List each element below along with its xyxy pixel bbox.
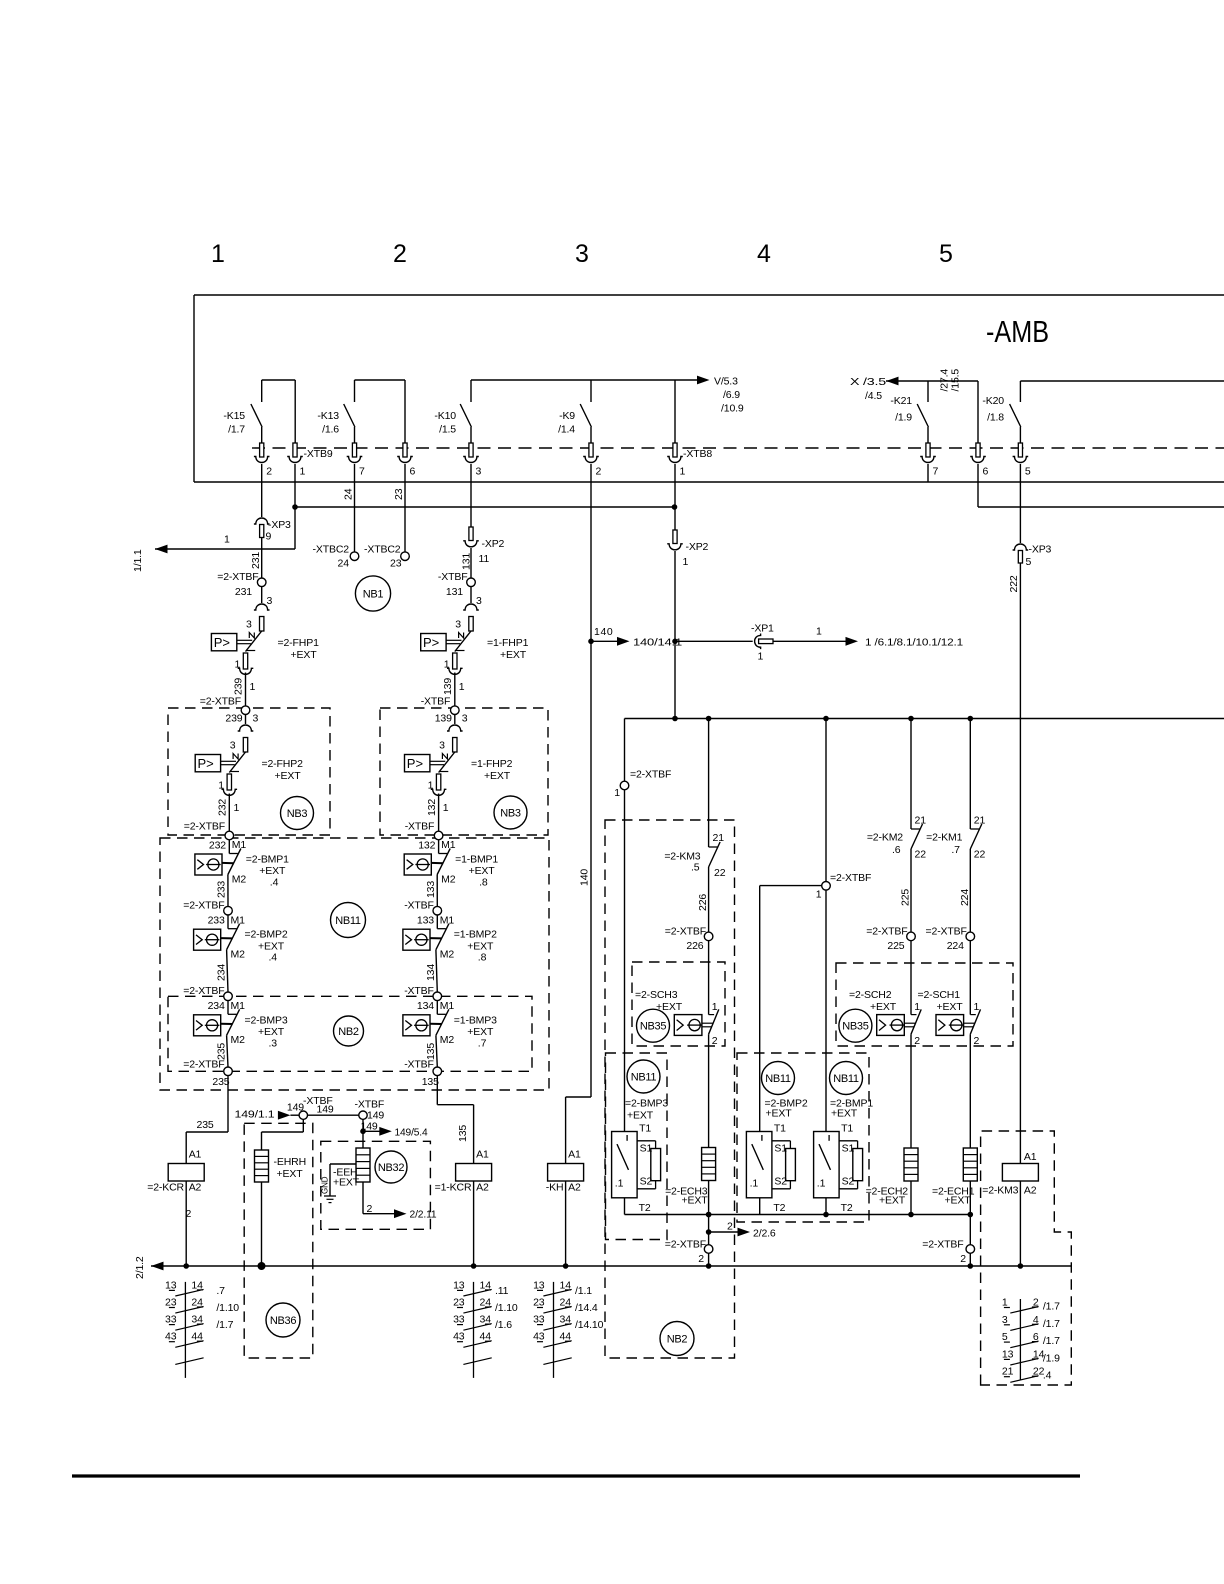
- svg-text:135: 135: [422, 1076, 439, 1088]
- svg-text:225: 225: [900, 889, 912, 906]
- svg-text:P>: P>: [423, 635, 439, 650]
- svg-text:135: 135: [457, 1125, 469, 1142]
- svg-text:43: 43: [453, 1331, 465, 1343]
- svg-text:=2-BMP3: =2-BMP3: [245, 1014, 288, 1026]
- svg-text:-XTB8: -XTB8: [683, 448, 712, 460]
- svg-text:+EXT: +EXT: [277, 1168, 304, 1180]
- svg-text:13: 13: [533, 1279, 545, 1291]
- svg-text:.11: .11: [495, 1285, 509, 1297]
- svg-text:22: 22: [974, 849, 986, 861]
- svg-text:1: 1: [974, 1001, 980, 1013]
- svg-text:GND: GND: [321, 1176, 330, 1194]
- svg-text:.7: .7: [951, 844, 960, 856]
- svg-text:7: 7: [359, 466, 365, 478]
- svg-text:149: 149: [317, 1104, 334, 1116]
- svg-text:149/5.4: 149/5.4: [395, 1126, 428, 1138]
- svg-text:33: 33: [533, 1314, 545, 1326]
- svg-text:233: 233: [208, 915, 225, 927]
- svg-text:3: 3: [1002, 1314, 1008, 1326]
- svg-text:239: 239: [233, 678, 245, 695]
- svg-text:=2-FHP2: =2-FHP2: [262, 758, 304, 770]
- svg-text:+EXT: +EXT: [333, 1177, 360, 1189]
- svg-text:-AMB: -AMB: [986, 314, 1049, 349]
- svg-text:A1: A1: [476, 1149, 489, 1161]
- svg-text:=1-BMP2: =1-BMP2: [454, 929, 497, 941]
- svg-text:NB11: NB11: [833, 1073, 859, 1085]
- svg-text:22: 22: [714, 867, 726, 879]
- svg-text:133: 133: [417, 915, 434, 927]
- svg-text:21: 21: [915, 815, 927, 827]
- svg-text:135: 135: [425, 1043, 437, 1060]
- svg-text:3: 3: [439, 740, 445, 752]
- svg-text:/1.7: /1.7: [1043, 1301, 1060, 1313]
- svg-text:-XTBC2: -XTBC2: [364, 544, 401, 556]
- svg-text:-K20: -K20: [982, 395, 1004, 407]
- svg-text:132: 132: [426, 799, 438, 816]
- svg-text:-K13: -K13: [317, 410, 339, 422]
- svg-text:-XTBF: -XTBF: [438, 571, 468, 583]
- svg-text:-EHRH: -EHRH: [274, 1156, 307, 1168]
- svg-text:-XTBF: -XTBF: [404, 985, 434, 997]
- svg-text:A2: A2: [568, 1182, 581, 1194]
- svg-text:M2: M2: [441, 873, 456, 885]
- svg-text:23: 23: [393, 488, 405, 500]
- svg-text:1/1.1: 1/1.1: [132, 549, 144, 572]
- svg-text:=2-XTBF: =2-XTBF: [183, 985, 224, 997]
- svg-text:-XTBF: -XTBF: [405, 821, 435, 833]
- svg-text:/1.7: /1.7: [1043, 1335, 1060, 1347]
- svg-text:23: 23: [453, 1297, 465, 1309]
- svg-text:226: 226: [686, 940, 703, 952]
- svg-text:24: 24: [338, 558, 350, 570]
- svg-text:A2: A2: [476, 1182, 489, 1194]
- svg-text:=2-XTBF: =2-XTBF: [200, 696, 241, 708]
- svg-text:S2: S2: [774, 1175, 787, 1187]
- svg-text:NB3: NB3: [500, 807, 521, 819]
- svg-text:2/1.2: 2/1.2: [134, 1256, 146, 1279]
- svg-text:+EXT: +EXT: [879, 1195, 906, 1207]
- svg-text:222: 222: [1008, 575, 1020, 592]
- svg-text:M2: M2: [231, 1034, 246, 1046]
- svg-text:1: 1: [758, 651, 764, 663]
- svg-text:NB36: NB36: [270, 1315, 296, 1327]
- svg-text:3: 3: [455, 619, 461, 631]
- svg-text:/14.4: /14.4: [575, 1302, 598, 1314]
- svg-text:+EXT: +EXT: [467, 940, 494, 952]
- svg-text:/1.7: /1.7: [216, 1319, 233, 1331]
- svg-text:22: 22: [915, 849, 927, 861]
- svg-text:+EXT: +EXT: [291, 649, 318, 661]
- svg-text:231: 231: [250, 552, 262, 569]
- svg-text:P>: P>: [214, 635, 230, 650]
- svg-text:NB35: NB35: [842, 1021, 868, 1033]
- svg-text:5: 5: [939, 240, 953, 268]
- svg-text:11: 11: [479, 553, 490, 565]
- svg-text:.1: .1: [615, 1178, 624, 1190]
- svg-text:+EXT: +EXT: [937, 1001, 964, 1013]
- svg-text:T2: T2: [841, 1202, 853, 1214]
- svg-text:.8: .8: [478, 952, 487, 964]
- svg-text:=1-FHP2: =1-FHP2: [471, 758, 513, 770]
- svg-text:T1: T1: [774, 1123, 786, 1135]
- svg-text:-XTBF: -XTBF: [404, 1059, 434, 1071]
- svg-text:=2-SCH3: =2-SCH3: [635, 989, 678, 1001]
- svg-text:+EXT: +EXT: [831, 1108, 858, 1120]
- svg-text:3: 3: [246, 619, 252, 631]
- svg-text:226: 226: [697, 894, 709, 911]
- svg-text:21: 21: [713, 832, 725, 844]
- svg-text:1: 1: [680, 466, 686, 478]
- svg-text:-XP1: -XP1: [751, 623, 774, 635]
- svg-text:.7: .7: [478, 1037, 487, 1049]
- svg-text:=2-XTBF: =2-XTBF: [183, 1059, 224, 1071]
- svg-text:.4: .4: [1043, 1370, 1052, 1382]
- svg-text:A1: A1: [568, 1149, 581, 1161]
- svg-text:9: 9: [266, 531, 272, 543]
- svg-text:=2-XTBF: =2-XTBF: [217, 571, 258, 583]
- svg-text:S1: S1: [774, 1143, 787, 1155]
- svg-text:239: 239: [225, 713, 242, 725]
- svg-text:149: 149: [287, 1102, 304, 1114]
- svg-text:1: 1: [816, 626, 822, 638]
- svg-text:P>: P>: [198, 756, 214, 771]
- svg-text:-XTBF: -XTBF: [404, 900, 434, 912]
- svg-text:S2: S2: [842, 1175, 855, 1187]
- svg-text:3: 3: [253, 713, 259, 725]
- svg-text:-XP3: -XP3: [1029, 544, 1052, 556]
- svg-text:1: 1: [300, 466, 306, 478]
- svg-text:232: 232: [209, 840, 226, 852]
- svg-text:140/14.1: 140/14.1: [633, 637, 682, 649]
- svg-text:234: 234: [208, 1000, 225, 1012]
- svg-text:132: 132: [418, 840, 435, 852]
- svg-text:4: 4: [757, 240, 771, 268]
- svg-text:X /3.5: X /3.5: [850, 376, 886, 388]
- svg-text:-K21: -K21: [890, 395, 912, 407]
- svg-text:S1: S1: [640, 1143, 653, 1155]
- svg-text:33: 33: [453, 1314, 465, 1326]
- svg-text:3: 3: [476, 595, 482, 607]
- svg-text:+EXT: +EXT: [467, 1026, 494, 1038]
- svg-text:.7: .7: [216, 1285, 225, 1297]
- svg-text:+EXT: +EXT: [469, 865, 496, 877]
- svg-text:2: 2: [960, 1253, 966, 1265]
- svg-text:23: 23: [533, 1297, 545, 1309]
- svg-text:2/2.11: 2/2.11: [410, 1209, 437, 1221]
- svg-text:.8: .8: [479, 877, 488, 889]
- svg-text:3: 3: [476, 466, 482, 478]
- svg-text:=2-XTBF: =2-XTBF: [926, 926, 967, 938]
- svg-text:225: 225: [887, 940, 904, 952]
- svg-text:/4.5: /4.5: [865, 390, 882, 402]
- svg-text:149/1.1: 149/1.1: [235, 1109, 275, 1121]
- svg-text:V/5.3: V/5.3: [714, 376, 738, 388]
- svg-text:.1: .1: [817, 1178, 826, 1190]
- svg-text:=2-BMP2: =2-BMP2: [245, 929, 288, 941]
- svg-text:T2: T2: [773, 1202, 785, 1214]
- svg-text:33: 33: [165, 1314, 177, 1326]
- svg-text:2: 2: [698, 1253, 704, 1265]
- svg-text:/1.7: /1.7: [228, 424, 245, 436]
- svg-text:6: 6: [410, 466, 416, 478]
- svg-text:M2: M2: [231, 949, 246, 961]
- svg-text:M1: M1: [232, 839, 247, 851]
- svg-text:1: 1: [250, 681, 256, 693]
- svg-text:43: 43: [533, 1331, 545, 1343]
- svg-text:21: 21: [974, 815, 986, 827]
- svg-text:/10.9: /10.9: [721, 403, 744, 415]
- svg-text:134: 134: [425, 964, 437, 981]
- svg-text:235: 235: [197, 1119, 214, 1131]
- svg-text:224: 224: [947, 940, 964, 952]
- svg-text:=2-FHP1: =2-FHP1: [278, 637, 320, 649]
- svg-text:NB35: NB35: [640, 1021, 666, 1033]
- svg-text:1 /6.1/8.1/10.1/12.1: 1 /6.1/8.1/10.1/12.1: [865, 637, 963, 649]
- svg-text:-K15: -K15: [223, 410, 245, 422]
- svg-text:+EXT: +EXT: [259, 865, 286, 877]
- svg-text:3: 3: [462, 713, 468, 725]
- svg-text:=2-KM1: =2-KM1: [926, 832, 962, 844]
- svg-text:131: 131: [446, 586, 463, 598]
- svg-text:/1.5: /1.5: [439, 424, 456, 436]
- svg-text:/6.9: /6.9: [723, 389, 740, 401]
- svg-text:P>: P>: [407, 756, 423, 771]
- svg-text:/1.9: /1.9: [895, 412, 912, 424]
- svg-text:NB1: NB1: [363, 588, 384, 600]
- svg-text:1: 1: [211, 240, 225, 268]
- svg-text:=1-KCR: =1-KCR: [435, 1182, 472, 1194]
- svg-text:A1: A1: [189, 1149, 202, 1161]
- svg-text:234: 234: [216, 964, 228, 981]
- svg-text:2/2.6: 2/2.6: [753, 1228, 776, 1240]
- svg-text:-KH: -KH: [546, 1182, 564, 1194]
- svg-text:=2-XTBF: =2-XTBF: [183, 900, 224, 912]
- svg-text:NB32: NB32: [378, 1162, 404, 1174]
- svg-text:+EXT: +EXT: [484, 770, 511, 782]
- svg-text:2: 2: [596, 466, 602, 478]
- svg-text:A1: A1: [1024, 1151, 1037, 1163]
- svg-text:M2: M2: [440, 1034, 455, 1046]
- svg-text:M1: M1: [440, 914, 455, 926]
- svg-text:M1: M1: [441, 839, 456, 851]
- svg-text:/1.10: /1.10: [495, 1302, 518, 1314]
- svg-text:A2: A2: [189, 1182, 202, 1194]
- svg-text:=2-XTBF: =2-XTBF: [866, 926, 907, 938]
- svg-text:23: 23: [390, 558, 402, 570]
- svg-text:S1: S1: [842, 1143, 855, 1155]
- svg-text:2: 2: [974, 1035, 980, 1047]
- svg-text:23: 23: [165, 1297, 177, 1309]
- svg-text:233: 233: [216, 881, 228, 898]
- svg-text:=2-XTBF: =2-XTBF: [922, 1239, 963, 1251]
- svg-text:1: 1: [683, 556, 689, 568]
- svg-text:=2-XTBF: =2-XTBF: [630, 769, 671, 781]
- svg-text:-XP3: -XP3: [268, 519, 291, 531]
- svg-text:5: 5: [1025, 466, 1031, 478]
- svg-text:.3: .3: [269, 1037, 278, 1049]
- svg-text:NB11: NB11: [631, 1071, 657, 1083]
- svg-text:2: 2: [712, 1035, 718, 1047]
- svg-text:139: 139: [442, 678, 454, 695]
- svg-text:/14.10: /14.10: [575, 1319, 604, 1331]
- svg-text:M1: M1: [231, 914, 246, 926]
- svg-text:2: 2: [914, 1035, 920, 1047]
- svg-text:NB11: NB11: [335, 915, 361, 927]
- svg-text:134: 134: [417, 1000, 434, 1012]
- svg-text:-K10: -K10: [434, 410, 456, 422]
- svg-text:/1.1: /1.1: [575, 1285, 592, 1297]
- svg-text:3: 3: [575, 240, 589, 268]
- svg-text:=2-XTBF: =2-XTBF: [665, 1239, 706, 1251]
- svg-text:.4: .4: [269, 952, 278, 964]
- svg-text:1: 1: [914, 1001, 920, 1013]
- svg-text:140: 140: [594, 626, 613, 638]
- svg-text:7: 7: [933, 466, 939, 478]
- svg-text:=2-BMP1: =2-BMP1: [246, 854, 289, 866]
- svg-text:5: 5: [1026, 556, 1032, 568]
- svg-text:-XP2: -XP2: [482, 538, 505, 550]
- svg-text:/1.10: /1.10: [216, 1302, 239, 1314]
- svg-text:=2-XTBF: =2-XTBF: [830, 872, 871, 884]
- svg-text:T2: T2: [639, 1202, 651, 1214]
- svg-text:M1: M1: [231, 1000, 246, 1012]
- svg-text:-XTBF: -XTBF: [421, 696, 451, 708]
- svg-text:-K9: -K9: [559, 410, 575, 422]
- svg-text:=2-XTBF: =2-XTBF: [184, 821, 225, 833]
- svg-text:T1: T1: [639, 1123, 651, 1135]
- svg-text:1: 1: [712, 1001, 718, 1013]
- svg-text:NB2: NB2: [338, 1026, 359, 1038]
- svg-text:S2: S2: [640, 1175, 653, 1187]
- svg-text:1: 1: [224, 534, 230, 546]
- svg-text:+EXT: +EXT: [870, 1001, 897, 1013]
- svg-text:=2-XTBF: =2-XTBF: [665, 926, 706, 938]
- svg-text:13: 13: [453, 1279, 465, 1291]
- svg-text:133: 133: [425, 881, 437, 898]
- svg-text:A2: A2: [1024, 1185, 1037, 1197]
- svg-text:/1.4: /1.4: [558, 424, 575, 436]
- svg-text:+EXT: +EXT: [500, 649, 527, 661]
- svg-text:=2-BMP3: =2-BMP3: [625, 1098, 668, 1110]
- svg-text:.1: .1: [750, 1178, 759, 1190]
- svg-text:+EXT: +EXT: [766, 1108, 793, 1120]
- svg-text:=2-SCH2: =2-SCH2: [849, 989, 892, 1001]
- svg-text:/1.8: /1.8: [987, 412, 1004, 424]
- svg-text:1: 1: [614, 787, 620, 799]
- svg-text:224: 224: [959, 889, 971, 906]
- svg-text:3: 3: [267, 595, 273, 607]
- svg-text:=2-KCR: =2-KCR: [147, 1182, 184, 1194]
- svg-text:/15.5: /15.5: [950, 369, 962, 392]
- svg-text:M2: M2: [232, 873, 247, 885]
- svg-text:=1-BMP1: =1-BMP1: [455, 854, 498, 866]
- svg-text:1: 1: [234, 802, 240, 814]
- svg-text:3: 3: [230, 740, 236, 752]
- svg-text:232: 232: [217, 799, 229, 816]
- svg-text:1: 1: [459, 681, 465, 693]
- svg-text:+EXT: +EXT: [627, 1110, 654, 1122]
- svg-text:2: 2: [727, 1221, 733, 1233]
- svg-text:M2: M2: [440, 949, 455, 961]
- svg-text:-XP2: -XP2: [686, 541, 709, 553]
- svg-text:1: 1: [1002, 1297, 1008, 1309]
- svg-text:-XTBC2: -XTBC2: [313, 544, 350, 556]
- svg-text:13: 13: [165, 1279, 177, 1291]
- svg-text:=1-BMP3: =1-BMP3: [454, 1014, 497, 1026]
- svg-text:/1.6: /1.6: [495, 1319, 512, 1331]
- svg-text:-XTB9: -XTB9: [304, 448, 333, 460]
- svg-text:/1.6: /1.6: [322, 424, 339, 436]
- svg-text:NB11: NB11: [765, 1073, 791, 1085]
- svg-text:2: 2: [393, 240, 407, 268]
- svg-text:=2-KM2: =2-KM2: [867, 832, 903, 844]
- svg-text:+EXT: +EXT: [682, 1195, 709, 1207]
- svg-text:21: 21: [1002, 1366, 1014, 1378]
- svg-text:5: 5: [1002, 1331, 1008, 1343]
- svg-text:+EXT: +EXT: [258, 940, 285, 952]
- svg-text:T1: T1: [841, 1123, 853, 1135]
- svg-text:1: 1: [443, 802, 449, 814]
- svg-text:NB2: NB2: [667, 1333, 688, 1345]
- svg-text:=2-KM3: =2-KM3: [982, 1185, 1018, 1197]
- svg-text:M1: M1: [440, 1000, 455, 1012]
- svg-text:NB3: NB3: [287, 808, 308, 820]
- svg-text:43: 43: [165, 1331, 177, 1343]
- svg-text:6: 6: [983, 466, 989, 478]
- svg-text:=1-FHP1: =1-FHP1: [487, 637, 529, 649]
- svg-text:+EXT: +EXT: [258, 1026, 285, 1038]
- svg-text:.5: .5: [691, 862, 700, 874]
- svg-text:=2-SCH1: =2-SCH1: [918, 989, 961, 1001]
- svg-text:139: 139: [435, 713, 452, 725]
- svg-text:235: 235: [216, 1043, 228, 1060]
- svg-text:.6: .6: [892, 844, 901, 856]
- svg-text:+EXT: +EXT: [945, 1195, 972, 1207]
- svg-text:/1.7: /1.7: [1043, 1318, 1060, 1330]
- svg-text:13: 13: [1002, 1348, 1014, 1360]
- svg-text:.4: .4: [270, 877, 279, 889]
- svg-text:/1.9: /1.9: [1043, 1352, 1060, 1364]
- svg-text:24: 24: [343, 488, 355, 500]
- svg-text:235: 235: [212, 1076, 229, 1088]
- svg-text:231: 231: [235, 586, 252, 598]
- svg-text:+EXT: +EXT: [275, 770, 302, 782]
- svg-text:1: 1: [816, 889, 822, 901]
- svg-text:2: 2: [266, 466, 272, 478]
- svg-text:140: 140: [579, 869, 591, 886]
